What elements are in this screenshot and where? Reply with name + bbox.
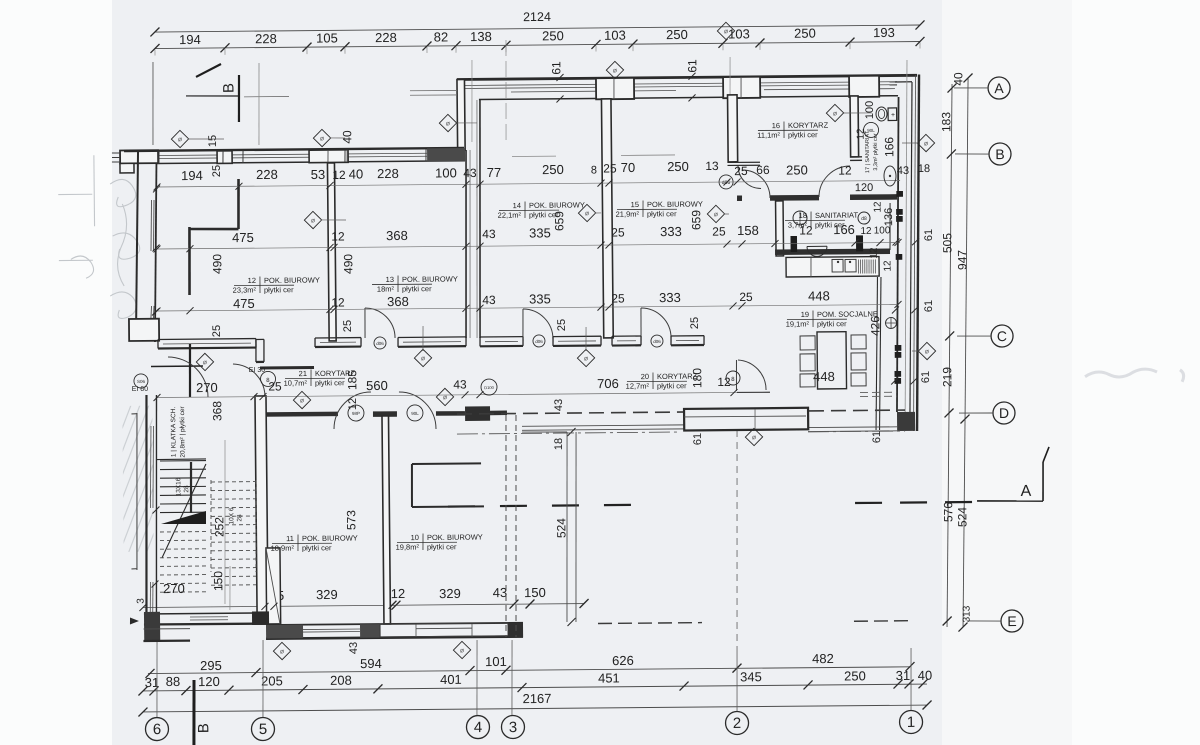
- svg-text:płytki cer: płytki cer: [264, 285, 294, 294]
- section marker B bottom: [193, 680, 194, 745]
- svg-text:12: 12: [347, 398, 359, 410]
- svg-text:205: 205: [261, 673, 283, 688]
- svg-text:43: 43: [897, 165, 909, 177]
- svg-text:5: 5: [259, 721, 268, 738]
- svg-text:560: 560: [366, 378, 388, 393]
- svg-text:12: 12: [391, 586, 406, 601]
- svg-text:659: 659: [689, 210, 703, 230]
- fixture circle d8: [858, 212, 870, 224]
- svg-text:13X16: 13X16: [175, 477, 182, 496]
- svg-text:100: 100: [864, 101, 876, 119]
- svg-text:3: 3: [509, 719, 518, 736]
- axis 5 extension line: [262, 640, 264, 717]
- svg-text:12: 12: [331, 295, 345, 309]
- axis circle D: [993, 402, 1015, 424]
- svg-text:płytki cer: płytki cer: [302, 543, 332, 552]
- svg-text:368: 368: [387, 294, 409, 309]
- stair direction diagonal: [161, 464, 207, 558]
- svg-text:335: 335: [529, 225, 551, 240]
- east wall extension thin line: [901, 60, 910, 431]
- faint vertical pencil line: [258, 63, 260, 145]
- svg-text:Ø: Ø: [833, 111, 837, 117]
- svg-text:40: 40: [918, 668, 933, 683]
- svg-text:18,9m²: 18,9m²: [271, 544, 295, 553]
- svg-text:SANITARIAT: SANITARIAT: [815, 211, 859, 220]
- south wall window 1 glazing: [303, 628, 360, 631]
- svg-text:2124: 2124: [523, 10, 551, 24]
- window diamond symbol at 615,70: [606, 61, 623, 78]
- svg-text:płytki cer: płytki cer: [402, 284, 432, 293]
- staircase west wall: [144, 395, 148, 612]
- svg-text:166: 166: [882, 137, 896, 157]
- svg-text:POK. BIUROWY: POK. BIUROWY: [402, 274, 458, 284]
- bottom dim row B: [143, 683, 927, 691]
- room 14 door leaf: [522, 309, 525, 339]
- svg-text:252: 252: [212, 517, 226, 537]
- svg-text:płytki cer: płytki cer: [817, 319, 847, 328]
- stoop below staircase: [144, 628, 190, 631]
- axis circle 4: [466, 715, 489, 738]
- wall to porch: [490, 411, 507, 416]
- svg-text:77: 77: [487, 165, 502, 180]
- wall between rooms 12 and 13: [327, 163, 336, 341]
- south wall solid segment 2: [360, 624, 380, 638]
- junction wall between wings: [457, 79, 465, 150]
- svg-text:368: 368: [386, 228, 408, 243]
- svg-text:S06: S06: [137, 379, 146, 384]
- svg-text:POK. BIUROWY: POK. BIUROWY: [264, 275, 320, 285]
- svg-text:183: 183: [939, 112, 953, 132]
- circle tags 98P 90L: [348, 405, 364, 421]
- svg-text:61: 61: [923, 229, 935, 241]
- chairs left column: [800, 336, 815, 350]
- svg-text:B: B: [220, 83, 237, 93]
- svg-text:180: 180: [690, 368, 704, 388]
- corridor 21 south wall left: [265, 412, 338, 417]
- diamond leader lines: [188, 138, 224, 141]
- window diamond symbol at 302,400: [293, 391, 310, 408]
- room 13 south wall east segment: [398, 336, 466, 339]
- room 11 door arc: [334, 392, 372, 429]
- svg-text:66: 66: [756, 163, 770, 177]
- svg-text:B: B: [995, 146, 1004, 162]
- sill tick marks left wing windows: [158, 151, 160, 164]
- wall right of room10 door: [436, 411, 465, 416]
- svg-text:490: 490: [341, 254, 355, 274]
- svg-text:POK. BIUROWY: POK. BIUROWY: [529, 200, 585, 210]
- faint scan smudge right margin: [1085, 369, 1184, 383]
- svg-text:90L: 90L: [411, 411, 419, 416]
- svg-text:250: 250: [667, 159, 689, 174]
- wall between doors 14-15: [553, 335, 601, 337]
- corridor 20 dim line: [157, 392, 737, 398]
- porch vertical lines: [754, 409, 756, 431]
- pier 105 in left top wall: [309, 150, 348, 163]
- svg-text:368: 368: [210, 401, 224, 421]
- eaves line left of junction: [410, 89, 457, 92]
- top wall outer line right wing: [457, 75, 917, 80]
- top wall inner face: [479, 96, 898, 100]
- svg-text:18m²: 18m²: [377, 284, 395, 293]
- section marker A right: [977, 500, 1043, 501]
- svg-text:14: 14: [513, 201, 521, 210]
- svg-text:D100: D100: [484, 385, 494, 390]
- svg-text:Ø: Ø: [584, 356, 588, 362]
- wall under divider 14-15: [612, 335, 641, 337]
- room 14 south wall west segment: [480, 336, 523, 338]
- chimney cross horizontal: [151, 365, 203, 367]
- wall pier dark at entrance: [465, 406, 490, 421]
- svg-text:POK. BIUROWY: POK. BIUROWY: [427, 533, 483, 543]
- window diamond symbol at 180,139: [171, 130, 188, 147]
- washbasin 18 half-round: [807, 246, 827, 256]
- svg-text:płytki cer: płytki cer: [647, 209, 677, 218]
- svg-text:15: 15: [631, 200, 639, 209]
- window diamond symbol at 754,437: [745, 428, 762, 445]
- solid wall segment 82: [427, 148, 465, 161]
- room 15 door leaf: [640, 308, 642, 338]
- svg-text:13: 13: [705, 159, 719, 173]
- svg-text:płytki cer: płytki cer: [788, 130, 818, 139]
- stair flight solid treads: [160, 460, 206, 462]
- svg-text:B: B: [195, 723, 212, 733]
- kitchen counter outline: [786, 257, 879, 277]
- svg-text:313: 313: [962, 605, 973, 622]
- svg-text:208: 208: [330, 673, 352, 688]
- svg-text:448: 448: [808, 288, 830, 303]
- svg-text:21: 21: [299, 369, 307, 378]
- axis circle 3: [501, 715, 524, 738]
- staircase south window: [190, 616, 228, 618]
- room 10 niche L-shape lines: [412, 462, 481, 465]
- room 10 door arc: [399, 392, 436, 430]
- window diamond symbol at 322,138: [313, 129, 330, 146]
- room 13 door arc: [365, 308, 395, 339]
- svg-text:Ø: Ø: [924, 141, 928, 147]
- svg-text:594: 594: [360, 656, 382, 671]
- svg-text:43: 43: [553, 399, 565, 411]
- right dimension chain line: [942, 84, 957, 627]
- svg-text:194: 194: [181, 168, 203, 183]
- divider wall rooms 11-10: [382, 416, 390, 624]
- svg-text:40: 40: [349, 166, 364, 181]
- boiler circle 90L sanit17: [863, 122, 878, 137]
- svg-text:576: 576: [941, 502, 955, 522]
- svg-text:194: 194: [179, 32, 201, 47]
- faint line room15: [621, 154, 675, 157]
- door 16 to 15 arc: [738, 166, 761, 189]
- svg-text:25: 25: [211, 325, 223, 337]
- outside stoop bracket: [135, 413, 138, 570]
- svg-text:10: 10: [411, 533, 419, 542]
- svg-text:płytki cer: płytki cer: [657, 381, 687, 390]
- svg-text:6: 6: [153, 721, 162, 738]
- svg-text:120: 120: [855, 182, 873, 194]
- corridor 21 north wall thick line: [260, 366, 314, 370]
- WC toilet sanit 17: [876, 107, 887, 121]
- wall between room 15 and korytarz 16: [728, 95, 738, 162]
- svg-text:płytki cer: płytki cer: [427, 542, 457, 551]
- dim line y310: [157, 304, 898, 312]
- window diamond symbol at 448,123: [439, 114, 456, 131]
- door korytarz16 to korytarz20 arc: [742, 170, 770, 199]
- axis circle 6: [145, 717, 168, 740]
- washbasin oval sanit 17: [884, 166, 896, 186]
- svg-text:20,8m² | płytki cer: 20,8m² | płytki cer: [179, 406, 186, 458]
- svg-text:43: 43: [482, 293, 496, 307]
- svg-text:EI 30: EI 30: [249, 367, 266, 374]
- svg-text:228: 228: [256, 167, 278, 182]
- svg-text:100: 100: [435, 165, 457, 180]
- south-west corner block: [144, 612, 160, 641]
- svg-text:Ø: Ø: [300, 398, 304, 404]
- svg-text:12: 12: [717, 375, 731, 389]
- sanitariat 17 left wall: [850, 96, 859, 157]
- svg-text:136: 136: [883, 208, 895, 226]
- svg-text:482: 482: [812, 651, 834, 666]
- fixture circle 18: [793, 211, 807, 225]
- svg-text:70: 70: [621, 160, 636, 175]
- door frame block left: [790, 236, 797, 252]
- svg-text:270: 270: [196, 380, 218, 395]
- svg-text:295: 295: [200, 658, 222, 673]
- svg-text:d06: d06: [653, 339, 661, 344]
- circle tag 8 corridor20: [726, 371, 740, 385]
- svg-text:98P: 98P: [352, 411, 360, 416]
- svg-text:Ø: Ø: [203, 360, 207, 366]
- svg-text:43: 43: [482, 227, 496, 241]
- room 12 south wall hollow band: [158, 338, 256, 341]
- svg-text:12: 12: [883, 260, 894, 272]
- svg-text:15: 15: [207, 135, 219, 147]
- axis circle E: [1001, 610, 1023, 632]
- door 19 leaf and arc: [735, 360, 738, 391]
- chimney cross vertical: [189, 344, 190, 397]
- svg-text:25: 25: [603, 161, 617, 175]
- svg-text:KORYTARZ: KORYTARZ: [788, 121, 829, 130]
- window diamond symbol at 716,214: [707, 205, 724, 222]
- svg-text:250: 250: [794, 26, 816, 41]
- EI60 tag circle: [134, 374, 148, 388]
- axis 4 extension line: [476, 640, 478, 715]
- stair dashed treads lower: [160, 531, 206, 533]
- chairs right column: [851, 335, 866, 349]
- staircase east wall: [255, 396, 268, 624]
- svg-text:d8: d8: [861, 216, 867, 222]
- svg-text:Ø: Ø: [585, 211, 589, 217]
- svg-text:451: 451: [598, 670, 620, 685]
- svg-text:250: 250: [786, 162, 808, 177]
- left wing top wall inner: [157, 161, 465, 164]
- svg-text:21,9m²: 21,9m²: [616, 209, 640, 218]
- svg-text:13: 13: [386, 275, 394, 284]
- door tag d06: [719, 175, 733, 189]
- svg-text:E: E: [1007, 613, 1016, 629]
- svg-text:61: 61: [685, 59, 699, 73]
- svg-text:524: 524: [955, 507, 969, 527]
- west wall inner line: [153, 163, 158, 342]
- door tag d06 room15: [651, 335, 663, 347]
- svg-text:103: 103: [604, 28, 626, 43]
- axis 1 extension line: [910, 648, 911, 710]
- window diamond symbol at 926,143: [917, 134, 934, 151]
- svg-text:333: 333: [660, 224, 682, 239]
- svg-text:Ø: Ø: [925, 349, 929, 355]
- svg-text:28: 28: [236, 514, 243, 522]
- staircase chimney block: [266, 548, 281, 624]
- window diamond symbol at 835,113: [826, 104, 843, 121]
- faint scan squiggles left margin: [58, 155, 140, 319]
- svg-text:40: 40: [951, 72, 965, 86]
- stair stringer line: [189, 462, 192, 513]
- sanitariat 18 bottom wall: [775, 251, 890, 252]
- svg-text:12: 12: [860, 226, 872, 237]
- axis circle C: [991, 325, 1013, 347]
- svg-text:150: 150: [524, 585, 546, 600]
- svg-text:18: 18: [553, 438, 565, 450]
- svg-text:31: 31: [896, 668, 911, 683]
- svg-text:706: 706: [597, 376, 619, 391]
- svg-text:105: 105: [316, 30, 338, 45]
- svg-text:Ø: Ø: [320, 136, 324, 142]
- svg-text:25: 25: [211, 165, 223, 177]
- interior dim row ticks y311: [153, 307, 160, 314]
- svg-text:25: 25: [712, 224, 726, 238]
- svg-text:329: 329: [439, 586, 461, 601]
- radiator symbol east wall: [885, 317, 896, 328]
- svg-text:138: 138: [470, 29, 492, 44]
- lintel diamond with leader room13: [414, 349, 431, 366]
- svg-text:2167: 2167: [522, 691, 551, 706]
- top-right corner inner lines: [895, 81, 912, 83]
- svg-text:2: 2: [733, 715, 742, 732]
- svg-text:150: 150: [211, 571, 225, 591]
- svg-text:Ø: Ø: [714, 212, 718, 218]
- window diamond symbol at 282,651: [273, 642, 290, 659]
- stair return flight dashed treads: [211, 481, 256, 483]
- svg-text:12,7m²: 12,7m²: [626, 382, 650, 391]
- terrace solid edge end ticks: [567, 428, 575, 436]
- svg-text:4: 4: [474, 719, 483, 736]
- top dimension line 2124: [155, 25, 920, 33]
- left wing top wall glazing: [159, 153, 427, 156]
- tag circle korytarz21: [260, 371, 275, 386]
- svg-text:3: 3: [136, 598, 147, 604]
- porch inner line: [684, 416, 806, 417]
- window diamond symbol at 313,220: [304, 211, 321, 228]
- window diamond symbol at 726,31: [717, 22, 734, 39]
- svg-text:12: 12: [838, 163, 852, 177]
- svg-text:61: 61: [871, 431, 883, 443]
- svg-text:11,1m²: 11,1m²: [757, 131, 780, 140]
- east wall bottom corner: [897, 412, 915, 431]
- svg-text:8: 8: [591, 164, 597, 176]
- door frame block right: [856, 235, 863, 251]
- svg-text:25: 25: [342, 320, 354, 332]
- svg-text:329: 329: [316, 587, 338, 602]
- svg-text:25: 25: [611, 291, 625, 305]
- axis circle B: [989, 143, 1011, 165]
- staircase east wall bottom T: [252, 611, 269, 625]
- svg-text:19,1m²: 19,1m²: [786, 319, 810, 328]
- svg-text:Ø: Ø: [280, 649, 284, 655]
- interior dim row ticks y187: [153, 183, 160, 190]
- axis circle 1: [899, 710, 922, 733]
- svg-text:Ø: Ø: [421, 356, 425, 362]
- svg-text:573: 573: [344, 510, 358, 530]
- door EI60 arc: [168, 357, 208, 398]
- door tag d06 room13: [374, 337, 386, 349]
- svg-text:12: 12: [331, 229, 345, 243]
- section A-A dashed cut line: [448, 505, 650, 507]
- roof overhang dashed line: [457, 410, 905, 415]
- svg-text:18: 18: [918, 163, 930, 175]
- svg-text:+: +: [891, 112, 895, 119]
- section marker B top: [196, 64, 221, 77]
- dining table: [817, 332, 847, 389]
- dim line y248: [157, 242, 900, 250]
- svg-text:61: 61: [920, 371, 932, 383]
- bottom dim row C 2167: [143, 704, 927, 712]
- svg-text:250: 250: [542, 28, 564, 43]
- svg-text:61: 61: [549, 61, 563, 75]
- svg-text:524: 524: [554, 518, 568, 538]
- svg-text:d06: d06: [376, 341, 384, 346]
- svg-text:61: 61: [692, 433, 704, 445]
- room 13 door leaf: [364, 308, 366, 338]
- svg-text:25: 25: [689, 317, 701, 329]
- bottom wing south wall: [266, 636, 523, 639]
- room 15 south wall east segment: [671, 335, 704, 337]
- top-left corner block: [120, 150, 158, 163]
- svg-text:1: 1: [907, 714, 916, 731]
- svg-text:12: 12: [869, 247, 880, 259]
- stair cut triangle: [161, 511, 206, 524]
- svg-text:90L: 90L: [867, 128, 875, 133]
- svg-text:61: 61: [923, 300, 935, 312]
- drainer hatch: [857, 259, 859, 273]
- svg-text:250: 250: [542, 162, 564, 177]
- east dashes near corner: [860, 391, 897, 393]
- svg-text:25: 25: [739, 290, 753, 304]
- east wall masonry marker squares: [896, 191, 903, 197]
- lintel diamond with leader room14: [577, 349, 594, 366]
- svg-text:345: 345: [740, 669, 762, 684]
- small arrow marker west wall: [130, 617, 139, 624]
- window diamond symbol at 462,650: [453, 641, 470, 658]
- T-wall pillar cap: [373, 411, 397, 417]
- svg-text:12: 12: [332, 168, 346, 182]
- svg-text:3,3m² płytki cer: 3,3m² płytki cer: [873, 133, 879, 171]
- axis E dashed segments: [598, 623, 702, 624]
- svg-text:490: 490: [210, 254, 224, 274]
- porch entrance slab: [684, 408, 808, 431]
- window diamond symbol at 445,397: [436, 388, 453, 405]
- west wall outer line: [134, 151, 140, 340]
- building south-east edge lines: [808, 426, 897, 429]
- svg-text:D: D: [999, 405, 1009, 421]
- svg-text:Ø: Ø: [311, 218, 315, 224]
- svg-text:12: 12: [799, 223, 813, 237]
- korytarz 16 wall stub: [727, 161, 759, 163]
- svg-text:Ø: Ø: [443, 395, 447, 401]
- svg-text:23,3m²: 23,3m²: [233, 285, 257, 294]
- right outer chain 524: [961, 419, 967, 627]
- leader line WC diamond: [843, 112, 872, 114]
- svg-text:448: 448: [813, 369, 835, 384]
- svg-text:22,1m²: 22,1m²: [498, 211, 522, 220]
- svg-text:43: 43: [463, 166, 477, 180]
